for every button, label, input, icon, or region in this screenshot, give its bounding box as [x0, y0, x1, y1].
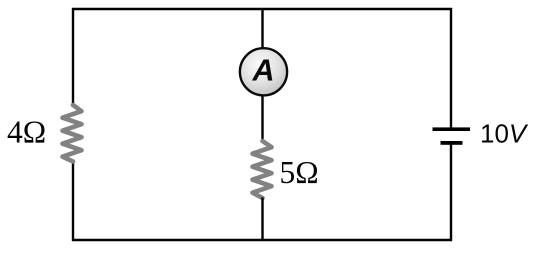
wire left branch lower segment [72, 161, 74, 242]
wire left branch upper segment [72, 8, 74, 106]
svg-text:A: A [251, 54, 274, 88]
resistor R1 4Ω zigzag [63, 105, 82, 162]
wire right branch upper segment [450, 8, 452, 128]
wire right branch lower segment [450, 144, 452, 241]
svg-text:4Ω: 4Ω [7, 115, 46, 150]
resistor R2 5Ω zigzag [253, 141, 272, 198]
wire middle branch bottom segment [261, 198, 263, 242]
ammeter U1 body [240, 48, 287, 95]
battery V1 short plate (negative) [441, 141, 463, 145]
wire top rail [72, 8, 452, 10]
wire bottom rail [72, 239, 452, 241]
wire middle branch segment between ammeter and resistor [261, 95, 263, 142]
svg-text:5Ω: 5Ω [280, 155, 319, 190]
svg-text:10V: 10V [480, 119, 529, 149]
wire middle branch top segment [261, 8, 263, 50]
battery V1 long plate (positive) [433, 127, 471, 131]
